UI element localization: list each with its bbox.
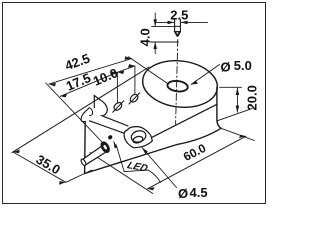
screw hole H1 (113, 101, 124, 112)
arrow 60.0 right (239, 135, 246, 138)
top face front edge L2 from step to boss (101, 115, 128, 126)
dim 4.0 vertical line segments (154, 13, 156, 54)
screw hole H2 (129, 93, 140, 104)
arrow 20.0 top (points up) (236, 88, 240, 95)
ledge front corner C arc (81, 113, 85, 121)
dim 20.0 line (236, 88, 238, 112)
arrow 60.0 left (148, 187, 155, 190)
dim 60.0 right extension (221, 128, 255, 140)
extension vertical from H2 (134, 66, 136, 93)
cylinder lobe top ellipse (140, 57, 220, 112)
arrow 20.0 bottom (points down) (236, 106, 240, 113)
cylinder right silhouette edge (217, 88, 221, 129)
ledge front corner fillet (84, 108, 89, 113)
back top edge + 35.0 left extension line (12, 67, 149, 153)
cylinder bottom front arc (177, 128, 221, 144)
svg-text:20.0: 20.0 (245, 85, 260, 110)
D5.0 leader (191, 65, 220, 85)
svg-text:2.5: 2.5 (170, 7, 188, 22)
arrow 4.0 top (points down) (153, 19, 157, 26)
hole D5.0 top (167, 80, 189, 93)
arrow 4.0 bottom (points up) (153, 42, 157, 49)
dim 42.5 line (49, 59, 132, 85)
dim 35.0 right extension (66, 170, 92, 182)
dim 35.0 line (13, 152, 66, 182)
front edge diagonal from boss to lobe right tangent (145, 104, 217, 141)
step rounded corner arc (100, 100, 108, 116)
barrel tube bottom line (85, 151, 107, 165)
arrow 35.0 left (13, 150, 20, 154)
dim 2.5 line right segment (181, 21, 208, 23)
step riser vertical V1 (93, 96, 95, 108)
screw hole H2 slash (129, 93, 140, 104)
LED dot (107, 134, 113, 140)
barrel tube white occlusion fill (83, 145, 108, 166)
pin cone (175, 32, 181, 37)
arrow D4.5 leader (142, 148, 148, 155)
boss counterbore ellipse (130, 129, 147, 144)
cable barrel collar (99, 140, 112, 155)
ledge bottom front v-edge / 60.0 left extension (90, 153, 153, 194)
arrow D5.0 leader (191, 80, 198, 84)
svg-text:Ø: Ø (221, 59, 231, 74)
bottom front edge E2 (85, 145, 177, 174)
arrow 2.5 right (points left) (181, 21, 188, 25)
centerline vertical dash-dot through pin and hole (176, 40, 178, 125)
svg-text:5.0: 5.0 (234, 58, 252, 73)
dimension texts (33, 7, 259, 200)
arrows (13, 19, 246, 190)
LED underline and tail (124, 170, 160, 182)
arrow 35.0 right (59, 181, 66, 185)
svg-text:4.5: 4.5 (190, 185, 208, 200)
arrow 17.5 right (111, 72, 118, 75)
ledge front top edge Lb (90, 121, 125, 133)
arrow 42.5 left (49, 83, 56, 87)
D4.5 leader (142, 148, 177, 188)
dim 42.5 right extension to hole (129, 57, 168, 84)
pin cone circle (176, 32, 179, 35)
step bottom curl (89, 108, 93, 116)
svg-text:4.0: 4.0 (138, 28, 153, 46)
dim 20.0 bottom extension (218, 109, 253, 121)
boss outer outline (124, 127, 152, 148)
barrel end cap (80, 158, 87, 166)
screw hole H1 slash (113, 101, 124, 112)
left front vertical edge (84, 122, 87, 174)
arrow 17.5 left (60, 94, 67, 97)
dim 10.0 line (117, 66, 134, 72)
arrow 10.0 left (117, 71, 124, 75)
dim 17.5 line (60, 72, 117, 96)
arrow 2.5 left (points right) (168, 21, 175, 25)
dim 60.0 line (148, 136, 247, 189)
step riser top edge (94, 96, 99, 100)
barrel tube top line (83, 145, 104, 160)
dim 4.0 bottom extension line (150, 41, 179, 43)
border frame (3, 3, 266, 204)
arrow 10.0 right (128, 64, 135, 68)
arrow LED leader (113, 140, 117, 148)
arrow 42.5 right (125, 56, 132, 60)
extension vertical from H1 (116, 73, 118, 103)
dim 20.0 top extension (220, 86, 242, 88)
pin top rectangle sides (175, 20, 181, 32)
pin top edge (175, 25, 181, 27)
svg-text:Ø: Ø (178, 186, 188, 201)
boss hole D4.5 (132, 135, 143, 144)
dim 42.5/17.5 shared left extension (46, 83, 102, 142)
dim 2.5 line left segment (157, 21, 175, 23)
LED leader (116, 145, 124, 172)
dim 4.0 top extension line (152, 25, 175, 27)
